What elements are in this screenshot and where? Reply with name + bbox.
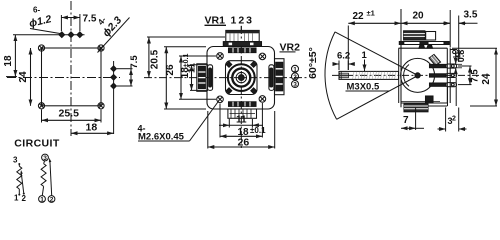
wire: left view vertical centerline	[70, 1, 72, 136]
bottom solder lug tab	[426, 96, 434, 103]
svg-text:2: 2	[50, 197, 54, 204]
svg-text:123: 123	[231, 15, 255, 27]
svg-text:1: 1	[362, 50, 368, 61]
cover bottom clip tab	[408, 103, 414, 106]
wire: middle view vertical centerline	[240, 26, 242, 148]
body circle side view	[401, 58, 435, 92]
connector block bottom	[228, 109, 257, 118]
svg-text:25.5: 25.5	[59, 108, 80, 120]
dimension 11 left	[187, 62, 209, 90]
dimension 7 bushing	[401, 108, 424, 131]
dimension 20	[401, 10, 450, 48]
dimension 11 bottom	[219, 115, 263, 128]
wire: VR1 bottom lead	[18, 189, 20, 196]
connector block top side view	[399, 31, 449, 45]
svg-text:7.5: 7.5	[129, 55, 140, 69]
connector block bottom side view	[401, 102, 440, 112]
wiper spring tab	[429, 55, 441, 66]
screw M2.6 top-right	[259, 53, 266, 60]
pin number circled 2	[292, 73, 299, 81]
dimension 1 slot width	[362, 50, 368, 71]
body circle inner arc	[404, 65, 409, 87]
mounting ear with holes	[450, 50, 460, 58]
mounting face line	[400, 9, 402, 107]
shaft outline	[339, 71, 399, 79]
dimension 26 bottom	[208, 111, 275, 149]
svg-text:3: 3	[293, 82, 297, 89]
wire: right view shaft centerline	[332, 74, 490, 76]
terminal pin 3 side	[430, 83, 457, 87]
svg-text:2: 2	[452, 116, 456, 123]
terminal hole row top (6-φ1.2) 2	[68, 32, 74, 38]
svg-text:11: 11	[236, 115, 247, 126]
dimension 25.5 bottom	[42, 108, 102, 123]
housing corner diamond SE	[251, 88, 257, 94]
dimension 7.5 top	[61, 14, 96, 32]
hole pattern corner hole TL (4-φ2.3)	[38, 45, 44, 51]
left view body square outline	[42, 48, 102, 106]
pcb pin bent down outer	[447, 87, 449, 106]
shaft circle	[236, 72, 246, 82]
wire: VR2 bottom lead	[42, 186, 43, 195]
dimension 22+-1	[348, 9, 401, 71]
svg-text:1: 1	[293, 66, 297, 73]
shaft bushing circle outer	[228, 64, 255, 91]
pin number circled 2 (VR2 schematic)	[48, 196, 55, 204]
dimension 3.5	[443, 10, 478, 63]
dimension 6.2 slot	[333, 51, 354, 71]
dimension 24 right	[452, 48, 497, 106]
hole pattern corner hole BR (4-φ2.3)	[98, 103, 104, 109]
shaft housing boss outline	[226, 61, 258, 95]
shaft thread hatching	[353, 72, 396, 79]
svg-text:3: 3	[13, 156, 18, 165]
svg-text:7: 7	[403, 115, 409, 126]
terminal hole row top (6-φ1.2) 3	[77, 32, 83, 38]
dimension 18+-0.1 left	[179, 54, 216, 100]
pin number circled 3 (VR2 schematic)	[42, 154, 49, 162]
label M3X0.5 thread	[346, 82, 390, 93]
dimension 20.5 left	[147, 37, 225, 78]
svg-text:24: 24	[18, 71, 29, 83]
potentiometer body front view outline	[207, 47, 275, 110]
shaft bushing circle mid	[232, 69, 250, 87]
terminal pin 2 side	[430, 73, 457, 77]
dimension 26 left	[164, 47, 206, 109]
label VR2	[280, 42, 301, 54]
dimension 7.5 pins	[458, 66, 481, 85]
dimension 18 left	[3, 35, 17, 77]
terminal hole col right (6-φ1.2) 3	[111, 83, 117, 89]
svg-text:6-: 6-	[33, 6, 40, 15]
svg-text:0.8: 0.8	[456, 50, 466, 63]
dimension 3.2 pin offset	[438, 108, 467, 132]
hole pattern corner hole BL (4-φ2.3)	[38, 103, 44, 109]
center pivot dot	[415, 73, 420, 78]
terminal hole row top (6-φ1.2) 1	[59, 32, 65, 38]
metal cover side outline	[399, 48, 451, 106]
dimension 18 bottom	[71, 122, 114, 134]
wiper arm VR2 (wire with arrow)	[49, 158, 52, 196]
terminal strip left edge-on	[208, 65, 213, 91]
wire: VR1 top lead	[18, 163, 20, 166]
terminal strip bottom edge-on	[229, 102, 257, 107]
shaft slot	[339, 73, 348, 78]
label 6-φ1.2 with leader	[28, 6, 62, 34]
connector block right (VR2 pins)	[275, 59, 285, 95]
label VR1	[205, 15, 255, 31]
svg-text:18: 18	[3, 55, 14, 67]
housing corner diamond NW	[226, 62, 232, 68]
screw M2.6 bottom-right	[259, 96, 266, 103]
svg-text:±1: ±1	[367, 9, 375, 18]
svg-text:7.5: 7.5	[470, 69, 481, 83]
svg-text:2: 2	[22, 194, 27, 203]
terminal hole col right (6-φ1.2) 2	[111, 75, 117, 81]
svg-text:1: 1	[40, 197, 44, 204]
screw M2.6 bottom-left	[217, 96, 224, 103]
svg-text:26: 26	[165, 64, 176, 76]
rotation fan lower radius	[337, 76, 418, 120]
terminal pin 1 side	[430, 64, 457, 68]
svg-text:20.5: 20.5	[150, 49, 161, 69]
dimension 7.5 right column	[117, 55, 140, 86]
wire: top terminal holes row line	[13, 34, 85, 36]
connector block left	[197, 64, 207, 92]
hole pattern corner hole TR (4-φ2.3)	[98, 45, 104, 51]
rotation fan arc	[325, 32, 337, 119]
housing corner diamond SW	[226, 88, 232, 94]
pin number circled 1 (VR2 schematic)	[39, 196, 46, 204]
dimension 18+-0.1 bottom	[220, 103, 266, 138]
terminal strip top edge-on	[229, 48, 257, 53]
svg-text:1: 1	[14, 194, 19, 203]
resistor VR2 zigzag	[41, 164, 46, 187]
terminal strip right edge-on	[269, 65, 274, 91]
svg-text:26: 26	[238, 137, 250, 149]
housing corner diamond NE	[251, 62, 257, 68]
dimension 0.8	[451, 50, 467, 74]
svg-text:CIRCUIT: CIRCUIT	[14, 138, 60, 150]
svg-text:3.5: 3.5	[464, 10, 478, 21]
wire: left view horizontal centerline	[7, 77, 120, 79]
rotation fan upper radius	[335, 32, 418, 76]
svg-text:24: 24	[481, 73, 492, 85]
svg-text:3: 3	[43, 155, 47, 162]
svg-text:11: 11	[187, 62, 198, 73]
svg-text:60°±5°: 60°±5°	[307, 47, 319, 79]
svg-text:7.5: 7.5	[83, 14, 97, 25]
svg-text:2: 2	[293, 74, 297, 81]
wire: VR2 top lead	[44, 161, 45, 164]
shaft center hole	[238, 75, 244, 81]
pcb pin bent down inner	[455, 78, 457, 107]
label 4-M2.6X0.45 with leader	[138, 101, 220, 143]
svg-text:18: 18	[86, 122, 98, 134]
cover top clip tabs	[419, 45, 433, 48]
wire: middle view horizontal centerline	[144, 77, 308, 79]
dimension 24 left	[18, 48, 31, 106]
label 4-φ2.3 with leader	[96, 14, 130, 52]
wiper arm VR1 (wire with arrow)	[20, 170, 25, 195]
connector block top (VR1 pins)	[223, 30, 261, 46]
svg-text:±0.1: ±0.1	[250, 126, 266, 135]
terminal hole col right (6-φ1.2) 1	[111, 66, 117, 72]
svg-text:22: 22	[353, 11, 365, 22]
pin number circled 3	[292, 81, 299, 89]
pin number circled 1	[292, 65, 299, 73]
wire: right terminal holes column line	[113, 61, 115, 134]
resistor VR1 zigzag	[17, 166, 22, 189]
svg-text:20: 20	[413, 11, 425, 22]
screw M2.6 top-left	[217, 53, 224, 60]
